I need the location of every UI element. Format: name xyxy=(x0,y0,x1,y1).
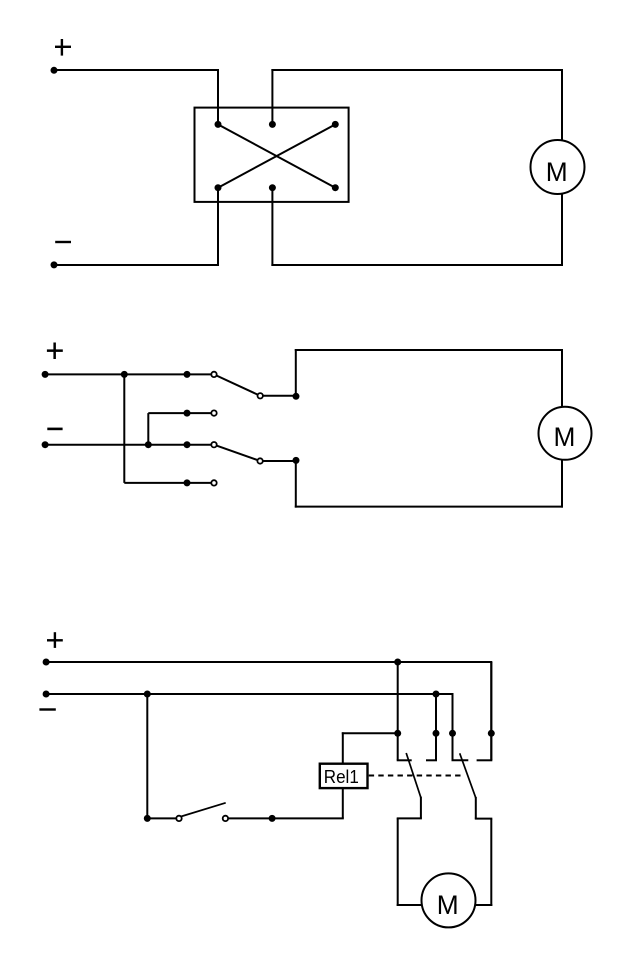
node coil junction xyxy=(269,815,276,822)
wire down into box pin 1 xyxy=(217,69,219,124)
wire contact1 right terminal xyxy=(435,694,437,760)
wire branch down from + rail xyxy=(123,374,125,483)
wire branch up from - rail xyxy=(147,413,149,445)
wire + rail xyxy=(45,373,212,375)
plus terminal label xyxy=(47,343,63,360)
box pin 1 xyxy=(215,121,222,128)
wire motor bottom down xyxy=(561,460,563,508)
wire coil top xyxy=(342,732,344,763)
wire - branch to switch xyxy=(146,694,148,818)
node pole B junction xyxy=(293,457,300,464)
wire - rail xyxy=(45,444,212,446)
wire pole B to node xyxy=(260,460,297,462)
wire coil to + vertical xyxy=(342,732,398,734)
wire - rail to box xyxy=(54,264,219,266)
wire blade2 jog right xyxy=(475,818,493,820)
wire motor bottom down xyxy=(561,194,563,267)
wire down to motor top xyxy=(561,69,563,141)
node minus terminal xyxy=(42,441,49,448)
box pin 2 xyxy=(269,121,276,128)
motor M1 xyxy=(531,140,585,194)
wire pole A to node xyxy=(260,395,297,397)
relay contact blade K1b xyxy=(460,753,476,798)
switch contact left xyxy=(176,816,181,821)
wire + rail to box xyxy=(54,69,219,71)
junction - rail end xyxy=(433,691,440,698)
wire blade2 down xyxy=(475,797,477,819)
minus terminal label xyxy=(47,428,62,431)
junction + rail xyxy=(121,371,128,378)
junction - rail switch branch xyxy=(144,691,151,698)
switch blade S2 xyxy=(181,803,226,817)
wire contact2 left terminal xyxy=(452,694,454,760)
wire row 2 xyxy=(148,412,212,414)
wire - rail xyxy=(46,693,454,695)
node terminal row 1 xyxy=(394,730,401,737)
wire blade1 jog left xyxy=(397,817,422,819)
svg-text:M: M xyxy=(546,157,568,187)
wire coil bottom xyxy=(342,788,344,818)
switch arm pole A xyxy=(214,374,260,395)
svg-text:M: M xyxy=(437,890,459,920)
pivot pole B xyxy=(257,458,262,463)
wire row 4 xyxy=(124,482,212,484)
wire motor left down xyxy=(397,818,399,906)
node plus terminal xyxy=(42,371,49,378)
contact row2 xyxy=(211,410,216,415)
wire switch to coil xyxy=(229,817,344,819)
junction row4 xyxy=(184,479,191,486)
wire motor right lead xyxy=(475,904,493,906)
node terminal row 4 xyxy=(488,730,495,737)
node terminal row 2 xyxy=(433,730,440,737)
wire up into box pin 4 xyxy=(217,188,219,266)
crossover link pin1-pin6 xyxy=(218,124,335,187)
box pin 4 xyxy=(215,184,222,191)
wire + rail corner down xyxy=(490,662,492,760)
plus terminal label xyxy=(55,39,71,56)
wire box pin 2 up xyxy=(271,69,273,124)
contact row4 xyxy=(211,480,216,485)
minus terminal label xyxy=(55,241,71,243)
relay coil Rel1 xyxy=(320,764,368,788)
box pin 6 xyxy=(332,184,339,191)
motor M3 xyxy=(422,873,476,927)
wire top to motor xyxy=(295,349,563,351)
wire blade1 down xyxy=(420,797,422,819)
wire contact2 right terminal xyxy=(490,662,492,760)
contact row1 xyxy=(211,372,216,377)
wire switch feed xyxy=(147,817,176,819)
wire node B down xyxy=(295,460,297,507)
switch arm pole B xyxy=(214,445,260,461)
wire motor right down xyxy=(490,819,492,906)
junction row2 xyxy=(184,410,191,417)
wire motor left lead xyxy=(397,904,423,906)
pivot pole A xyxy=(258,393,263,398)
wire + rail xyxy=(46,661,492,663)
junction - rail xyxy=(145,441,152,448)
wire box pin 5 down xyxy=(271,188,273,266)
switch box S1 xyxy=(195,108,349,202)
wire down to motor top xyxy=(561,349,563,408)
node switch left xyxy=(144,815,151,822)
minus terminal label xyxy=(39,708,55,710)
wire bottom to motor xyxy=(271,264,563,266)
node terminal row 3 xyxy=(449,730,456,737)
junction row1 xyxy=(184,371,191,378)
junction + rail xyxy=(394,659,401,666)
crossover link pin4-pin3 xyxy=(218,124,335,187)
node minus terminal xyxy=(43,691,50,698)
node plus terminal xyxy=(51,67,58,74)
relay contact blade K1a xyxy=(406,753,421,798)
switch contact right xyxy=(223,816,228,821)
actuation dashed link xyxy=(369,775,461,777)
wire top to motor xyxy=(271,69,563,71)
plus terminal label xyxy=(47,632,63,648)
box pin 3 xyxy=(332,121,339,128)
node pole A junction xyxy=(293,393,300,400)
seat contact1 left xyxy=(397,759,412,761)
seat contact1 right xyxy=(426,759,437,761)
seat contact2 left xyxy=(452,759,469,761)
wire contact1 left terminal xyxy=(397,662,399,760)
contact row3 xyxy=(211,442,216,447)
box pin 5 xyxy=(269,184,276,191)
node minus terminal xyxy=(51,261,58,268)
wire bottom to motor xyxy=(295,506,563,508)
motor M2 xyxy=(539,407,592,460)
svg-text:Rel1: Rel1 xyxy=(324,766,359,787)
svg-text:M: M xyxy=(553,422,575,452)
wire node A up xyxy=(295,349,297,396)
junction row3 xyxy=(184,441,191,448)
node plus terminal xyxy=(43,659,50,666)
seat contact2 right xyxy=(477,759,493,761)
